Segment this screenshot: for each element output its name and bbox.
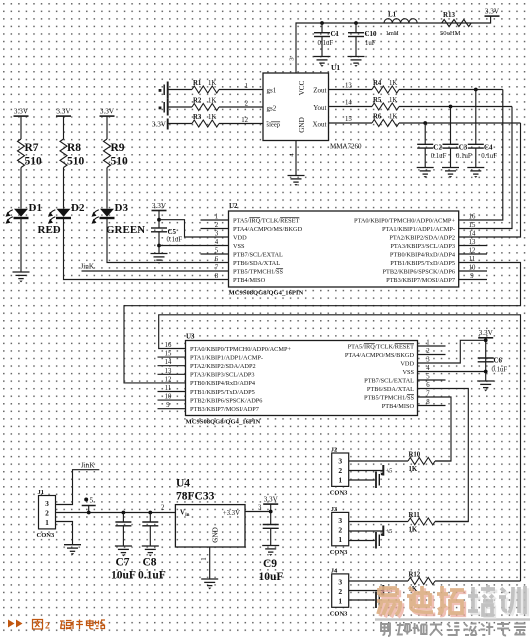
wire Yout to U2 pin15 <box>459 107 512 229</box>
wire R6 output row <box>399 122 521 124</box>
svg-text:1K: 1K <box>208 114 216 121</box>
svg-text:510: 510 <box>25 156 43 168</box>
ground C10 <box>348 57 365 64</box>
svg-text:1mH: 1mH <box>386 30 399 37</box>
svg-text:PTA5/IRQ/TCLK/RESET: PTA5/IRQ/TCLK/RESET <box>233 217 300 224</box>
wire R7 top <box>20 116 22 139</box>
svg-text:8: 8 <box>215 273 219 280</box>
svg-text:2: 2 <box>426 348 430 355</box>
svg-text:R7: R7 <box>25 142 39 154</box>
svg-text:10: 10 <box>469 265 476 272</box>
svg-text:U3: U3 <box>186 333 195 341</box>
svg-text:PTA4/ACMPO/MS/BKGD: PTA4/ACMPO/MS/BKGD <box>233 226 303 233</box>
svg-text:3.3V: 3.3V <box>100 108 115 116</box>
wire R4 output row <box>399 89 503 91</box>
resistor R1 <box>192 80 219 93</box>
wire R8 top <box>63 116 65 139</box>
LED D2 <box>48 202 85 224</box>
watermark small text <box>381 622 526 636</box>
svg-text:+5: +5 <box>386 468 393 475</box>
wire R4 row from U1 <box>329 89 373 91</box>
pin 9 U2 stub <box>459 279 487 281</box>
svg-text:510: 510 <box>67 156 85 168</box>
svg-text:PTB1/KBIP5/TxD/ADP5: PTB1/KBIP5/TxD/ADP5 <box>190 389 255 396</box>
wire +5 rail J1 pin2 to U4 Vin <box>56 512 176 514</box>
watermark char xun <box>499 586 527 616</box>
svg-text:5: 5 <box>215 248 219 255</box>
capacitor C3 <box>443 107 472 168</box>
watermark small char 3 <box>413 623 427 634</box>
svg-text:J2: J2 <box>331 447 338 454</box>
svg-text:R12: R12 <box>409 572 421 579</box>
svg-text:PTA1/KBIP1/ADP1/ACMP-: PTA1/KBIP1/ADP1/ACMP- <box>382 226 455 233</box>
pin 13 U2 stub <box>459 245 487 247</box>
pin 14 U3 stub <box>158 365 186 367</box>
svg-text:2: 2 <box>45 509 49 518</box>
pin 1 U3 stub <box>418 345 446 347</box>
svg-text:2: 2 <box>45 622 50 632</box>
svg-text:15: 15 <box>165 351 172 358</box>
pin 9 U3 stub <box>158 408 186 410</box>
svg-text:Zout: Zout <box>313 87 326 95</box>
svg-text:PTA3/KBIP3/SCL/ADP3: PTA3/KBIP3/SCL/ADP3 <box>390 243 455 250</box>
svg-text:J3: J3 <box>331 506 338 513</box>
svg-text:PTA0/KBIP0/TPMCH0/ADP0/ACMP+: PTA0/KBIP0/TPMCH0/ADP0/ACMP+ <box>190 346 291 353</box>
svg-text:GREEN: GREEN <box>106 224 145 236</box>
svg-text:CON3: CON3 <box>37 532 55 539</box>
svg-text:14: 14 <box>165 359 172 366</box>
svg-text:R10: R10 <box>409 452 421 459</box>
ground C1 <box>314 57 331 64</box>
svg-text:0.1uF: 0.1uF <box>318 40 334 47</box>
svg-text:Yout: Yout <box>313 104 326 112</box>
ground U4 <box>201 579 218 586</box>
watermark char di <box>407 586 435 614</box>
svg-text:U2: U2 <box>229 202 238 210</box>
svg-text:10: 10 <box>165 394 172 401</box>
wire R1 row <box>168 89 192 91</box>
svg-text:3: 3 <box>45 499 49 508</box>
watermark small char 5 <box>447 623 460 636</box>
svg-text:0.1uF: 0.1uF <box>492 367 508 374</box>
resistor R13 <box>440 11 471 37</box>
svg-text:1: 1 <box>338 597 342 606</box>
svg-text:0.1uF: 0.1uF <box>431 153 447 160</box>
pin 5 U2 stub <box>201 253 229 255</box>
svg-text:PTB5/TPMCH1/SS: PTB5/TPMCH1/SS <box>233 268 284 275</box>
wire J4 pin3 to R12 <box>349 580 408 582</box>
svg-text:10uF: 10uF <box>259 571 284 583</box>
svg-text:1: 1 <box>215 214 218 221</box>
svg-text:VDD: VDD <box>233 234 247 241</box>
ground C5 <box>151 254 168 261</box>
svg-text:C6: C6 <box>494 357 503 365</box>
svg-text:15: 15 <box>345 116 352 123</box>
wire D1 cathode <box>20 219 22 273</box>
wire 3.3V column U3 <box>485 338 487 381</box>
resistor R2 <box>192 97 219 110</box>
wire U3 VSS pin4 <box>418 371 486 373</box>
svg-text:3.3V: 3.3V <box>152 202 167 210</box>
svg-text:C2: C2 <box>433 144 442 152</box>
wire R2 row <box>168 106 192 108</box>
svg-text:C5: C5 <box>168 228 177 236</box>
svg-text:1: 1 <box>245 83 248 90</box>
svg-text:PTB7/SCL/EXTAL: PTB7/SCL/EXTAL <box>364 377 414 384</box>
svg-text:PTB4/MISO: PTB4/MISO <box>233 277 266 284</box>
watermark large text <box>377 585 527 617</box>
capacitor C1 <box>314 23 340 57</box>
watermark char pei <box>468 585 497 617</box>
svg-text:15: 15 <box>469 222 476 229</box>
ground gs2 (rotated) <box>159 99 168 116</box>
svg-text:8: 8 <box>426 399 430 406</box>
svg-text:C3: C3 <box>459 144 468 152</box>
svg-text:PTB3/KBIP7/MOSI/ADP7: PTB3/KBIP7/MOSI/ADP7 <box>386 277 455 284</box>
resistor R4 <box>372 80 399 93</box>
capacitor C6 <box>478 357 508 374</box>
ground C6 <box>477 381 494 388</box>
wire JinK to U2 pin7 <box>82 270 229 272</box>
svg-text:R3: R3 <box>193 114 202 121</box>
watermark small char 2 <box>397 623 410 635</box>
svg-text:J1: J1 <box>38 489 45 496</box>
connector J3 CON3 <box>330 506 349 556</box>
capacitor C7 <box>111 513 136 582</box>
wire U4 out pin3 <box>245 511 271 513</box>
svg-text:PTB0/KBIP4/RxD/ADP4: PTB0/KBIP4/RxD/ADP4 <box>390 251 456 258</box>
junction +5 <box>87 511 91 515</box>
watermark small char 9 <box>514 624 526 636</box>
svg-text:VSS: VSS <box>233 243 245 250</box>
pin 8 U3 stub <box>418 405 446 407</box>
wire R12 to net B riser <box>435 580 521 582</box>
svg-text:CON3: CON3 <box>330 490 348 497</box>
wire D2 to U2 pin8 <box>64 219 229 280</box>
svg-text:C9: C9 <box>263 558 277 570</box>
svg-text:3.3V: 3.3V <box>152 121 167 129</box>
svg-text:11: 11 <box>165 385 172 392</box>
svg-text:1: 1 <box>45 518 49 527</box>
svg-text:1: 1 <box>338 535 342 544</box>
wire J2 pin3 to R10 <box>349 460 408 462</box>
connector J4 CON3 <box>330 567 349 617</box>
svg-text:L1: L1 <box>388 11 397 19</box>
svg-text:R4: R4 <box>373 80 382 87</box>
ground U1 <box>288 176 305 183</box>
svg-text:13: 13 <box>345 83 352 90</box>
svg-text:CON3: CON3 <box>330 610 348 617</box>
svg-text:PTA2/KBIP2/SDA/ADP2: PTA2/KBIP2/SDA/ADP2 <box>190 363 256 370</box>
ground C7 <box>115 546 132 553</box>
svg-text:3.3V: 3.3V <box>485 8 500 16</box>
svg-text:3.3V: 3.3V <box>14 108 29 116</box>
svg-text:PTB4/MISO: PTB4/MISO <box>382 403 415 410</box>
capacitor C5 <box>151 228 182 254</box>
svg-text:R13: R13 <box>443 11 456 19</box>
resistor R6 <box>372 113 399 126</box>
svg-text:PTB2/KBIP6/SPSCK/ADP6: PTB2/KBIP6/SPSCK/ADP6 <box>190 397 262 404</box>
wire 3.3V to C5 <box>158 211 160 229</box>
wire R8 to D2 <box>63 168 65 209</box>
svg-text:12: 12 <box>165 376 172 383</box>
watermark small char 8 <box>497 622 509 636</box>
svg-text:Xout: Xout <box>313 121 327 129</box>
inductor L1 <box>384 11 417 38</box>
svg-text:1K: 1K <box>389 80 397 87</box>
svg-text:PTA0/KBIP0/TPMCH0/ADP0/ACMP+: PTA0/KBIP0/TPMCH0/ADP0/ACMP+ <box>354 217 455 224</box>
svg-text:D1: D1 <box>29 202 42 214</box>
ground J4 pin1 (rotated) <box>349 592 383 609</box>
watermark char yi <box>377 588 402 617</box>
wire R7 to D1 <box>20 168 22 209</box>
svg-text:2: 2 <box>161 505 165 512</box>
LED D1 <box>6 202 61 236</box>
wire 3.3V to C9 <box>270 504 272 524</box>
pin 13 U3 stub <box>158 373 186 375</box>
svg-text:3.3V: 3.3V <box>479 329 494 337</box>
svg-text:PTB6/SDA/XTAL: PTB6/SDA/XTAL <box>367 386 414 393</box>
svg-text:1K: 1K <box>409 527 418 534</box>
power +5 J2 <box>349 465 393 476</box>
wire D3 to U2 pin6 <box>107 219 229 263</box>
svg-text:1K: 1K <box>208 97 216 104</box>
svg-text:1: 1 <box>426 340 429 347</box>
watermark small char 1 <box>381 623 390 637</box>
svg-text:0.1uF: 0.1uF <box>167 237 183 244</box>
capacitor C4 <box>468 90 497 168</box>
svg-text:PTA1/KBIP1/ADP1/ACMP-: PTA1/KBIP1/ADP1/ACMP- <box>190 354 263 361</box>
junction VDD elbow <box>157 218 161 222</box>
wire R3 row <box>168 123 192 125</box>
junction C7 <box>122 511 126 515</box>
pin 12 U2 stub <box>459 253 487 255</box>
svg-text:CON3: CON3 <box>330 549 348 556</box>
svg-text:3.3V: 3.3V <box>264 496 279 504</box>
wire Xout to U2 pin14 <box>459 123 521 237</box>
svg-text:0.1uF: 0.1uF <box>138 570 166 582</box>
connector J2 CON3 <box>330 447 349 497</box>
svg-text:78FC33: 78FC33 <box>176 491 215 503</box>
svg-text:+5: +5 <box>386 528 393 535</box>
regulator U4 78FC33 <box>161 478 262 561</box>
svg-text:1K: 1K <box>208 80 216 87</box>
ground J2 pin1 (rotated) <box>349 472 383 489</box>
wire to U2 VDD pin3 <box>159 220 229 237</box>
caption figure 2 <box>8 620 105 632</box>
power +5 J1 <box>82 497 96 513</box>
svg-text:3.3V: 3.3V <box>56 108 71 116</box>
svg-text:PTA5/IRQ/TCLK/RESET: PTA5/IRQ/TCLK/RESET <box>348 343 415 350</box>
svg-text:R6: R6 <box>373 113 382 120</box>
svg-text:C1: C1 <box>331 30 340 38</box>
svg-text:10uF: 10uF <box>111 570 136 582</box>
pin 11 U3 stub <box>158 391 186 393</box>
svg-text:C7: C7 <box>116 557 130 569</box>
svg-text:0.1uF: 0.1uF <box>456 153 472 160</box>
wire U3 pin16 to R12 (net B) <box>159 315 521 581</box>
svg-text:GND: GND <box>212 527 220 543</box>
power 3.3V sleep bar <box>152 119 168 130</box>
svg-text:RED: RED <box>38 224 61 236</box>
ground C4 <box>467 168 484 175</box>
wire R10 to U3 pin7 riser <box>435 460 451 462</box>
wire R5 row from U1 <box>329 106 373 108</box>
resistor R3 <box>192 114 219 127</box>
svg-text:PTB3/KBIP7/MOSI/ADP7: PTB3/KBIP7/MOSI/ADP7 <box>190 406 259 413</box>
svg-text:3: 3 <box>338 457 342 466</box>
ground gs1 (rotated) <box>159 82 168 99</box>
ground J1 <box>64 545 81 552</box>
pin 5 U3 stub <box>418 379 446 381</box>
svg-text:R11: R11 <box>409 512 421 519</box>
junction U4 out <box>269 510 273 514</box>
svg-text:13: 13 <box>165 368 172 375</box>
wire U2 pin11 to U3 pin12 (net A) <box>124 263 521 383</box>
svg-text:1K: 1K <box>389 97 397 104</box>
wire R5 output row <box>399 106 512 108</box>
svg-text:C8: C8 <box>143 557 157 569</box>
wire U3 pin7 to R10 <box>418 397 452 461</box>
ground C8 <box>142 546 159 553</box>
svg-text:R9: R9 <box>111 142 125 154</box>
svg-text:9: 9 <box>470 273 474 280</box>
junction C3 <box>449 105 453 109</box>
resistor R5 <box>372 97 399 110</box>
svg-text:JinK: JinK <box>81 263 95 271</box>
ground D1 <box>13 272 30 279</box>
svg-text:VSS: VSS <box>402 369 414 376</box>
svg-text:PTB7/SCL/EXTAL: PTB7/SCL/EXTAL <box>233 251 283 258</box>
svg-text:3: 3 <box>338 578 342 587</box>
wire J1 pin1 to ground <box>56 522 73 545</box>
svg-text:2: 2 <box>215 222 219 229</box>
connector J1 CON3 <box>37 489 56 539</box>
svg-text:JinK: JinK <box>81 462 95 470</box>
wire R9 top <box>106 116 108 139</box>
svg-text:sleep: sleep <box>267 122 281 129</box>
svg-text:6: 6 <box>215 256 219 263</box>
svg-text:C4: C4 <box>484 144 493 152</box>
watermark small char 6 <box>464 624 477 636</box>
wire 3.3V rail to U1 VCC <box>296 16 491 73</box>
svg-text:2: 2 <box>338 587 342 596</box>
wire R9 to D3 <box>106 168 108 209</box>
resistor R11 1K <box>408 512 435 534</box>
svg-text:50oHM: 50oHM <box>440 30 461 37</box>
watermark small char 4 <box>430 625 443 636</box>
svg-text:14: 14 <box>345 100 352 107</box>
pin 2 U2 stub <box>201 228 229 230</box>
svg-text:3: 3 <box>258 505 262 512</box>
svg-text:12: 12 <box>241 117 248 124</box>
svg-text:1K: 1K <box>389 113 397 120</box>
svg-text:PTB0/KBIP4/RxD/ADP4: PTB0/KBIP4/RxD/ADP4 <box>190 380 256 387</box>
wire U3 VDD pin3 to 3.3V <box>418 340 486 363</box>
wire U3 pin6 to R11 <box>418 389 469 522</box>
junction C1/rail <box>320 21 324 25</box>
svg-text:1: 1 <box>338 476 342 485</box>
svg-text:9: 9 <box>166 402 170 409</box>
svg-text:gs2: gs2 <box>267 105 277 113</box>
svg-text:12: 12 <box>469 248 476 255</box>
power +5 J3 <box>349 526 393 537</box>
pin 1 U2 stub <box>201 219 229 221</box>
svg-text:R5: R5 <box>373 97 382 104</box>
svg-text:5: 5 <box>426 374 430 381</box>
svg-text:PTA2/KBIP2/SDA/ADP2: PTA2/KBIP2/SDA/ADP2 <box>389 234 455 241</box>
svg-text:0.1uF: 0.1uF <box>481 153 497 160</box>
capacitor C8 <box>138 513 166 582</box>
resistor R7 510 <box>18 139 43 168</box>
svg-text:R1: R1 <box>193 80 202 87</box>
junction C2 <box>423 121 427 125</box>
ground C3 <box>442 168 459 175</box>
svg-text:U1: U1 <box>331 63 340 72</box>
wire J3 pin3 to R11 <box>349 521 408 523</box>
watermark underline bar <box>375 618 530 620</box>
resistor R9 510 <box>104 139 129 168</box>
svg-text:R2: R2 <box>193 97 202 104</box>
wire U2 VSS pin4 <box>159 245 229 247</box>
svg-text:PTB5/TPMCH1/SS: PTB5/TPMCH1/SS <box>364 394 415 401</box>
svg-text:2: 2 <box>338 526 342 535</box>
pin 4 wire U1 GND <box>295 141 297 176</box>
svg-text:gs1: gs1 <box>267 87 277 95</box>
pin 10 U2 stub <box>459 270 487 272</box>
junction U3 VSS <box>484 370 488 374</box>
svg-text:2: 2 <box>245 101 249 108</box>
svg-text:D3: D3 <box>115 202 129 214</box>
svg-text:C10: C10 <box>365 30 378 38</box>
IC U2 MC9S08QG8/QG4_16PIN <box>229 202 459 297</box>
ground J3 pin1 (rotated) <box>349 532 383 549</box>
resistor R8 510 <box>60 139 85 168</box>
svg-text:1uF: 1uF <box>365 40 376 47</box>
junction C8 <box>148 511 152 515</box>
svg-text:R8: R8 <box>67 142 81 154</box>
junction C4 <box>474 88 478 92</box>
power +5 J4 <box>349 585 393 596</box>
capacitor C9 <box>259 525 284 584</box>
svg-text:D2: D2 <box>71 202 85 214</box>
svg-text:PTA3/KBIP3/SCL/ADP3: PTA3/KBIP3/SCL/ADP3 <box>190 372 255 379</box>
pin 10 U3 stub <box>158 399 186 401</box>
pin 2 U3 stub <box>418 354 446 356</box>
svg-text:510: 510 <box>111 156 129 168</box>
capacitor C2 <box>417 123 446 168</box>
pin 15 U3 stub <box>158 356 186 358</box>
svg-text:+3.3V: +3.3V <box>223 510 240 517</box>
junction VSS row <box>157 244 161 248</box>
svg-text:VDD: VDD <box>400 360 414 367</box>
wire J1 pin3 to JinK <box>56 470 100 505</box>
svg-text:3: 3 <box>289 57 296 60</box>
wire U4 GND pin1 <box>209 547 211 579</box>
svg-text:7: 7 <box>215 265 219 272</box>
resistor R10 1K <box>408 452 435 474</box>
svg-text:VCC: VCC <box>298 80 306 95</box>
ground C2 <box>417 168 434 175</box>
junction U3 VDD <box>484 338 488 342</box>
svg-text:PTB6/SDA/XTAL: PTB6/SDA/XTAL <box>233 260 280 267</box>
wire Zout to U2 pin16 <box>459 90 503 221</box>
IC U3 MC9S08QG8/QG4_16PIN <box>186 333 418 426</box>
svg-text:U4: U4 <box>176 478 190 490</box>
watermark char tuo <box>437 586 466 616</box>
svg-text:J4: J4 <box>331 567 338 574</box>
svg-text:GND: GND <box>298 117 306 133</box>
